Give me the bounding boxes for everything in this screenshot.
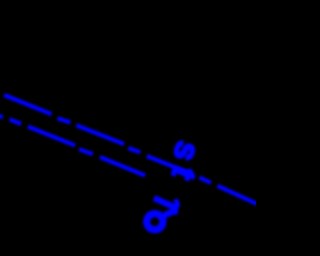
wire [4,95,51,114]
wire [199,177,211,183]
wire [218,186,258,204]
svg-text:t: t [165,162,204,185]
wire [100,157,145,176]
wire [10,119,21,124]
wire [128,148,140,152]
wire [147,156,194,175]
wire [0,115,3,117]
wire [79,149,93,154]
svg-text:s: s [165,137,207,166]
glyph 1 [153,191,182,212]
glyph 6 [147,211,178,230]
wire [58,118,71,122]
wire [28,127,75,146]
glyph t tip [189,176,195,178]
wire [76,125,124,144]
street label str 16 [147,137,208,230]
